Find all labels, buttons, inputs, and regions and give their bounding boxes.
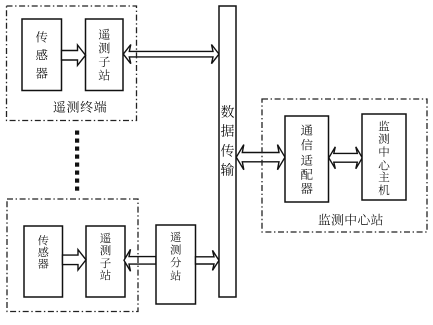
double arrow 通信适配器↔监测中心主机 bbox=[329, 147, 363, 169]
arrow 传感器→遥测子站 (top) bbox=[62, 45, 86, 65]
arrow 遥测分站→遥测子站 (left) bbox=[124, 249, 156, 271]
telemetry branch box 遥测分站 bbox=[156, 225, 196, 304]
telemetry terminal group box 2 (bottom) bbox=[7, 199, 138, 312]
sensor box 传感器 (bottom) bbox=[24, 226, 63, 297]
group label 遥测终端 bbox=[53, 101, 65, 113]
telemetry substation box 遥测子站 (bottom) bbox=[86, 226, 125, 297]
telemetry terminal group box 遥测终端 bbox=[7, 6, 137, 121]
arrow 遥测分站→数据传输 bbox=[196, 250, 220, 270]
dotted connector between terminal groups bbox=[75, 131, 79, 135]
comm adapter box 通信适配器 bbox=[285, 116, 329, 202]
monitoring center group box 监测中心站 bbox=[262, 99, 427, 232]
double arrow 数据传输↔通信适配器 bbox=[236, 145, 285, 170]
arrow 传感器→遥测子站 (bottom) bbox=[63, 250, 87, 270]
double arrow 遥测子站↔数据传输 bbox=[123, 45, 219, 64]
sensor box 传感器 (top) bbox=[22, 19, 62, 91]
telemetry substation box 遥测子站 (top) bbox=[86, 19, 124, 91]
monitoring center host box 监测中心主机 bbox=[362, 114, 406, 200]
group label 监测中心站 bbox=[318, 214, 330, 225]
data transmission box 数据传输 bbox=[219, 6, 236, 297]
